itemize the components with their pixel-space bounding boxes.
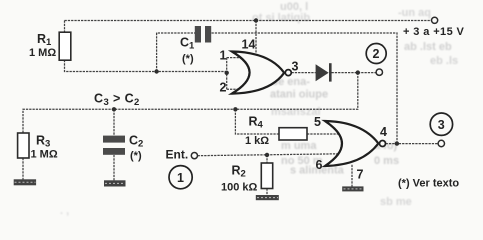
svg-text:1 MΩ: 1 MΩ (29, 47, 56, 59)
svg-text:-un aq: -un aq (398, 7, 431, 19)
svg-text:Ent.: Ent. (166, 148, 189, 162)
svg-text:0 ms: 0 ms (374, 155, 399, 167)
svg-text:m uma: m uma (281, 140, 317, 152)
svg-text:1 kΩ: 1 kΩ (245, 135, 269, 147)
svg-text:+ 3 a +15 V: + 3 a +15 V (403, 26, 465, 38)
svg-text:14: 14 (242, 38, 256, 52)
svg-text:6: 6 (316, 158, 323, 172)
svg-text:2: 2 (373, 47, 380, 61)
svg-text:7: 7 (357, 167, 364, 181)
svg-text:(*): (*) (182, 53, 194, 65)
svg-text:ot si latiqib: ot si latiqib (252, 12, 310, 24)
svg-text:3: 3 (438, 118, 445, 132)
svg-text:ab .lst eb: ab .lst eb (404, 41, 452, 53)
svg-text:5: 5 (314, 115, 321, 129)
svg-text:. ,: . , (60, 205, 69, 217)
svg-text:(*): (*) (130, 150, 142, 162)
svg-text:2: 2 (220, 81, 227, 95)
svg-text:eb .ls: eb .ls (430, 55, 458, 67)
svg-text:100 kΩ: 100 kΩ (221, 182, 258, 194)
svg-text:4: 4 (380, 125, 387, 139)
svg-text:1: 1 (220, 49, 227, 63)
svg-text:sb me: sb me (380, 196, 412, 208)
svg-text:(*) Ver texto: (*) Ver texto (398, 178, 459, 190)
svg-text:1 MΩ: 1 MΩ (31, 149, 58, 161)
svg-text:3: 3 (292, 60, 299, 74)
svg-text:1: 1 (177, 171, 184, 185)
svg-text:atani oiupe: atani oiupe (270, 89, 328, 101)
